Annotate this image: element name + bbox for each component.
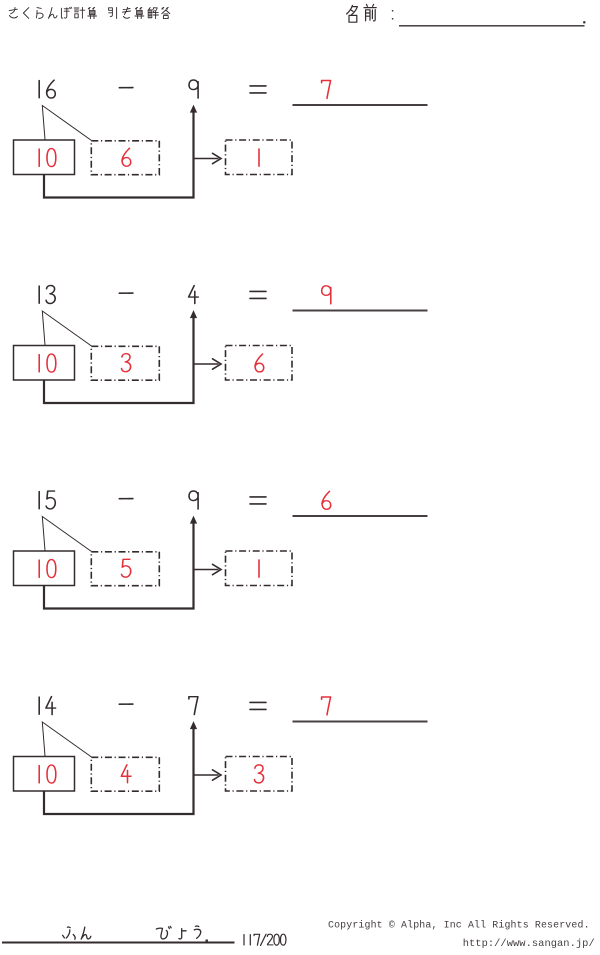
svg-text:Copyright © Alpha, Inc All Ri: Copyright © Alpha, Inc All Rights Reserv… <box>328 920 590 931</box>
svg-text:http://www.sangan.jp/: http://www.sangan.jp/ <box>463 938 595 950</box>
